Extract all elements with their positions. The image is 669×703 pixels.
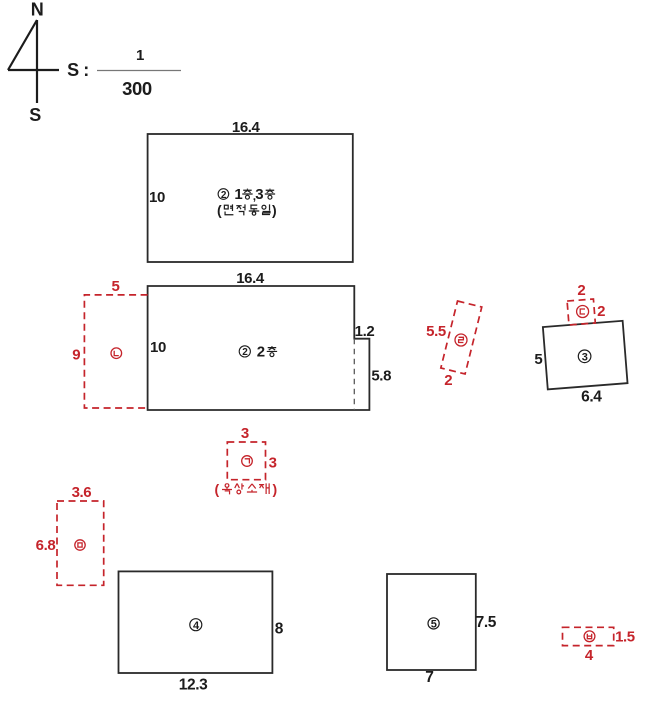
svg-text:10: 10	[149, 189, 165, 206]
building 3, rotated	[543, 321, 628, 390]
svg-text:5: 5	[431, 619, 437, 631]
svg-text:3.6: 3.6	[72, 484, 92, 501]
north arrow	[8, 20, 59, 103]
svg-text:6.4: 6.4	[581, 389, 602, 406]
label (2) 2cheung	[239, 343, 277, 360]
svg-text:5: 5	[112, 278, 120, 295]
svg-text:6.8: 6.8	[36, 537, 56, 554]
svg-text:S :: S :	[67, 60, 89, 80]
svg-text:(: (	[217, 202, 222, 218]
svg-text:1.5: 1.5	[615, 629, 635, 646]
svg-text:3: 3	[255, 186, 263, 203]
svg-text:16.4: 16.4	[236, 270, 265, 287]
svg-text:S: S	[29, 105, 41, 125]
red dashed box G (giyeok) rooftop	[227, 442, 265, 480]
circled giyeok	[242, 456, 253, 467]
svg-text:2: 2	[257, 343, 265, 360]
fraction bar	[97, 70, 181, 72]
building 2-lower (2F) polygon with notch	[148, 286, 370, 410]
svg-text:5.8: 5.8	[371, 368, 391, 385]
svg-text:3: 3	[582, 352, 588, 364]
label (oksangsojae) red	[215, 481, 277, 497]
circled bieup	[584, 631, 595, 642]
svg-text:1.2: 1.2	[355, 323, 375, 340]
red dashed box R (rieul), rotated	[441, 301, 482, 374]
label line2: (myeonjeokdongil)	[217, 202, 276, 218]
svg-text:2: 2	[597, 303, 605, 320]
circled nieun	[111, 348, 122, 359]
red dashed box D (digeut) on top of bldg3	[567, 299, 595, 325]
svg-text:): )	[273, 481, 277, 497]
svg-text:16.4: 16.4	[232, 119, 261, 136]
circled digeut	[577, 306, 589, 318]
svg-text:10: 10	[150, 339, 166, 356]
svg-text:7: 7	[425, 669, 433, 686]
svg-text:2: 2	[221, 190, 227, 201]
svg-text:2: 2	[577, 282, 585, 299]
circled mieum	[75, 540, 85, 550]
label line1: (2) 1cheung,3cheung	[218, 186, 275, 203]
red dashed box M (mieum)	[57, 501, 104, 585]
svg-text:8: 8	[275, 621, 284, 638]
svg-text:2: 2	[444, 372, 452, 389]
svg-text:): )	[272, 202, 276, 218]
svg-text:1: 1	[136, 47, 144, 64]
svg-text:1: 1	[234, 186, 242, 203]
svg-text:5.5: 5.5	[426, 323, 446, 340]
svg-text:9: 9	[72, 347, 80, 364]
red dashed box L (nieun) attached left of 2F	[84, 295, 147, 408]
svg-text:N: N	[31, 0, 44, 20]
dashed inner boundary of 1.2m strip	[353, 339, 355, 410]
svg-text:300: 300	[122, 78, 152, 99]
circled 3	[578, 350, 591, 364]
svg-text:5: 5	[534, 351, 542, 368]
svg-text:3: 3	[269, 455, 277, 472]
svg-text:12.3: 12.3	[179, 677, 208, 694]
red dashed box B (bieup)	[563, 627, 614, 645]
building 2-upper (1F,3F) rectangle	[148, 134, 353, 262]
building 4	[119, 571, 273, 673]
circled 5	[428, 618, 439, 631]
circled rieul	[455, 334, 467, 346]
svg-text:(: (	[215, 481, 220, 497]
svg-text:2: 2	[242, 347, 248, 358]
svg-text:3: 3	[241, 425, 249, 442]
svg-text:7.5: 7.5	[476, 614, 497, 631]
circled 4	[190, 619, 202, 632]
svg-text:4: 4	[585, 647, 594, 664]
building 5	[387, 574, 476, 670]
